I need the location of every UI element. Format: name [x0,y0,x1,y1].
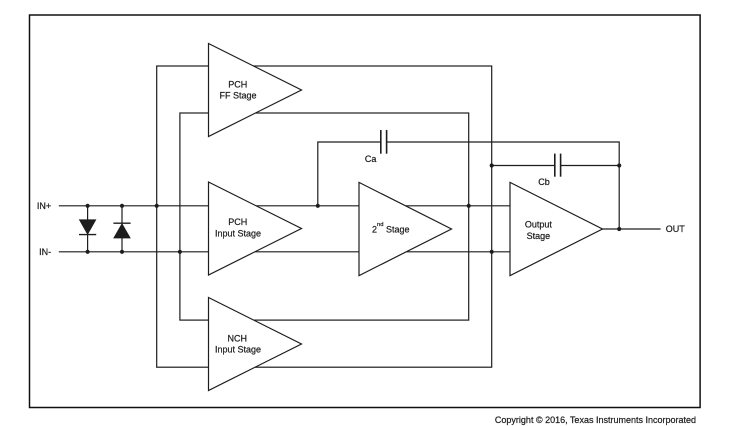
svg-text:Ca: Ca [365,154,377,164]
junction IN+ / D2 [120,204,124,208]
svg-text:OUT: OUT [666,224,686,234]
junction IN- / D2 [120,250,124,254]
svg-text:PCH: PCH [228,80,247,90]
svg-text:IN-: IN- [39,247,51,257]
junction Cb / outer loop right [490,163,494,167]
wire inner feedback loop [180,113,469,320]
svg-text:Copyright © 2016, Texas Instru: Copyright © 2016, Texas Instruments Inco… [495,415,696,425]
junction IN- rail / outer loop right [490,250,494,254]
wire IN+ rail [59,205,510,207]
svg-text:FF Stage: FF Stage [219,90,256,100]
capacitor Ca [381,130,387,154]
svg-text:Input Stage: Input Stage [215,345,261,355]
diode D1 anode IN+ cathode IN- [79,206,96,252]
junction IN- / D1 [86,250,90,254]
junction IN+ / Ca branch [316,204,320,208]
junction Cb / output branch [617,163,621,167]
svg-text:PCH: PCH [228,217,247,227]
op-amp U5 Output Stage [510,182,603,275]
wire Cb branch [492,165,620,167]
svg-text:IN+: IN+ [37,201,51,211]
wire outer feedback loop [157,66,492,367]
diode D2 anode IN- cathode IN+ [113,206,130,252]
svg-text:Input Stage: Input Stage [215,229,261,239]
capacitor Cb [555,154,561,177]
svg-text:Output: Output [525,220,553,230]
junction IN+ / D1 [86,204,90,208]
op-amp U1 PCH FF Stage [209,44,302,137]
op-amp U4 2nd Stage [359,182,452,275]
svg-text:Cb: Cb [538,177,550,187]
svg-text:Stage: Stage [527,231,551,241]
wire Ca compensation branch [318,142,619,229]
svg-text:NCH: NCH [228,334,248,344]
op-amp U2 PCH Input Stage [209,182,302,275]
wire OUT line [602,228,661,230]
wire IN- rail [59,251,510,253]
junction OUT node [617,227,621,231]
junction IN+ rail / inner loop right [467,204,471,208]
junction IN- / inner loop left [178,250,182,254]
junction IN+ / outer loop left [155,204,159,208]
op-amp U3 NCH Input Stage [209,298,302,391]
